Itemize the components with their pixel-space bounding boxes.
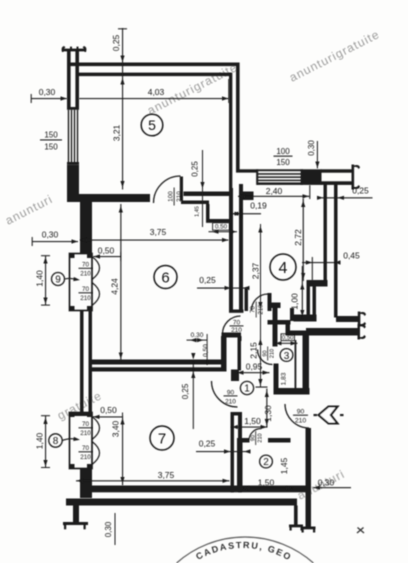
dimension 0,19 <box>232 201 267 220</box>
window sill cap lower <box>67 162 79 165</box>
door D2 arc <box>249 429 261 441</box>
entry door arc (90/210) <box>285 404 309 428</box>
wall E2 with cap (right jut) <box>306 328 360 336</box>
dimension 3,40 rot <box>111 416 125 486</box>
svg-text:4,24: 4,24 <box>110 278 120 295</box>
svg-text:3,21: 3,21 <box>112 124 122 141</box>
second wall line below door <box>181 201 209 205</box>
entry direction arrow symbol <box>319 407 338 424</box>
svg-text:1,45: 1,45 <box>279 457 289 474</box>
wall rooms 6/7 line lower <box>92 367 222 371</box>
wall cut foot A <box>289 525 303 531</box>
entry door label 90/210 <box>293 409 308 425</box>
room 2 left wall <box>237 438 243 492</box>
room 3 east wall <box>303 331 310 395</box>
small mark above stamp <box>357 528 364 534</box>
wall cut cap E1 <box>358 312 366 327</box>
svg-text:4: 4 <box>279 260 288 277</box>
svg-text:1,50: 1,50 <box>258 478 275 488</box>
svg-text:0,30: 0,30 <box>39 87 56 97</box>
top wall inner line <box>79 73 231 77</box>
dimension 1,40 room 9 <box>35 255 51 305</box>
svg-text:0,30: 0,30 <box>104 521 113 537</box>
room circle 7 <box>150 426 174 450</box>
svg-text:7: 7 <box>158 431 166 448</box>
room circle 2 <box>260 455 273 468</box>
dimension 0,25 room6 wall <box>197 275 250 290</box>
wall between rooms 5 and 6 left part <box>79 194 150 202</box>
small shaft wall segment <box>245 288 249 311</box>
dimension 0,25 door wall rot <box>191 150 205 227</box>
svg-text:0,25: 0,25 <box>181 383 190 399</box>
svg-text:2: 2 <box>263 457 269 468</box>
svg-text:0,19: 0,19 <box>250 201 267 211</box>
wall cut cap top-left <box>62 46 87 52</box>
hall east wall lower <box>274 364 279 389</box>
door D56 label 100/210 rotated <box>168 188 184 206</box>
hall west wall <box>238 341 242 371</box>
room 4 inner step wall <box>307 280 328 287</box>
svg-text:4,03: 4,03 <box>148 87 165 97</box>
niche room 8 corner stubs <box>70 413 93 469</box>
room circle 5 <box>141 114 163 136</box>
dimension 2,37 rot <box>251 224 263 387</box>
dimension 0,25 wall 6/7 rot <box>181 353 195 429</box>
dimension 0,30 NE rot <box>307 140 320 169</box>
dimension 3,75 room 6 <box>80 227 229 242</box>
wall cut cap NE <box>352 165 361 190</box>
svg-text:100: 100 <box>276 147 290 156</box>
dimension 1,30 rot <box>263 389 273 428</box>
svg-text:6: 6 <box>161 270 169 287</box>
niche 8 door arc lower <box>92 442 100 465</box>
svg-text:150: 150 <box>276 158 290 167</box>
door D7 hinge stub <box>231 370 239 382</box>
dimension 0,30 top-left <box>31 87 67 103</box>
dimension 0,30 bottom left rot <box>104 513 116 545</box>
svg-text:2,37: 2,37 <box>251 262 261 279</box>
door D6 arc <box>223 316 241 334</box>
svg-text:0,45: 0,45 <box>343 251 360 261</box>
svg-text:210: 210 <box>80 295 91 302</box>
svg-text:210: 210 <box>80 430 91 437</box>
svg-text:210: 210 <box>231 327 242 334</box>
door D6 leaf (70/210) <box>222 333 242 338</box>
dimension 3,21 left <box>112 78 125 188</box>
wall cut cap SW <box>63 522 88 529</box>
dimension 0,25 top-left <box>111 28 127 190</box>
room 2 top wall left stub <box>237 438 250 443</box>
niche 9 label lower 70/210 <box>79 286 93 302</box>
svg-text:1,83: 1,83 <box>281 372 288 385</box>
svg-text:0,25: 0,25 <box>191 161 200 177</box>
svg-text:70: 70 <box>82 262 90 269</box>
room 7 right wall (double) <box>231 412 243 493</box>
svg-text:0,95: 0,95 <box>246 362 263 372</box>
svg-text:0,25: 0,25 <box>352 186 369 196</box>
wall between rooms 5 and 6 right part <box>184 192 232 197</box>
left wall x80-92 lower (double) <box>80 469 92 499</box>
small label 0.30 near D6 <box>187 332 208 365</box>
svg-text:0,25: 0,25 <box>199 275 216 285</box>
room circle 3 <box>280 349 293 362</box>
dimension 3,75 bottom <box>76 470 230 483</box>
long wall room6/room4 line B <box>239 184 243 310</box>
dimension 1,50 vestibule <box>231 416 268 429</box>
door D7 label 90/210 <box>224 390 238 406</box>
niche 8 door arc upper <box>92 417 100 440</box>
svg-text:5: 5 <box>148 117 156 133</box>
dimension 4,03 <box>79 79 229 103</box>
top wall outer line <box>67 63 239 67</box>
svg-text:0.50: 0.50 <box>215 224 228 231</box>
niche room 9 corner stubs <box>70 254 93 311</box>
shaft stub wall <box>272 303 281 309</box>
south-west wall descender <box>73 505 79 523</box>
svg-text:210: 210 <box>258 433 264 442</box>
dimension 0,25 wall R <box>317 186 373 200</box>
room 4 bottom-left wall <box>294 315 317 322</box>
outer wall double-line toward NE cap <box>321 169 353 185</box>
svg-text:210: 210 <box>270 349 276 358</box>
svg-text:0,30: 0,30 <box>42 230 59 240</box>
svg-text:70: 70 <box>233 319 241 326</box>
east wall lower (room 2 right) <box>306 428 312 506</box>
svg-text:0,30: 0,30 <box>318 478 335 488</box>
stamp arc text CADASTRU GEO <box>153 537 333 563</box>
boxed label 0.50 shaft <box>209 223 238 234</box>
svg-text:100: 100 <box>168 191 175 202</box>
svg-text:210: 210 <box>80 454 91 461</box>
hall east wall upper <box>273 303 278 347</box>
wall left of room 5 lower <box>67 165 79 202</box>
dimension 1,50 room 2 <box>243 478 294 491</box>
dimension 0,95 <box>237 362 270 375</box>
wall connector to top window <box>236 169 258 172</box>
svg-text:70: 70 <box>82 421 90 428</box>
room 5 right wall outer line <box>236 63 240 171</box>
svg-text:70: 70 <box>82 286 90 293</box>
dimension 1,00 rot <box>290 266 305 318</box>
svg-text:0,30: 0,30 <box>307 140 316 156</box>
long wall room6/room4 line A <box>229 188 233 310</box>
door D3 leaf (70/210) <box>268 293 272 311</box>
dimension 1,40 room 8 <box>35 415 51 468</box>
wall stub right of long wall (room 4 NW) <box>243 192 254 201</box>
door D56 arc <box>154 176 181 203</box>
south wall outer line <box>66 499 297 506</box>
long wall bottom sill <box>229 310 244 313</box>
wall jog up to door D6 <box>221 336 227 372</box>
room circle 8 with leader <box>49 434 80 447</box>
svg-text:1: 1 <box>244 384 250 395</box>
room circle 6 <box>154 266 177 289</box>
svg-text:9: 9 <box>55 275 61 286</box>
svg-text:0,50: 0,50 <box>282 336 294 342</box>
door D3 label rot <box>251 302 265 318</box>
svg-text:2,40: 2,40 <box>266 186 283 196</box>
wall cut foot B <box>301 527 316 533</box>
room 4 step verticals (double) <box>307 286 317 318</box>
dimension 2,72 rot <box>293 199 305 282</box>
svg-text:1,50: 1,50 <box>244 416 261 426</box>
outer wall right of window W2 <box>302 169 322 185</box>
wall step below room 5 left <box>67 195 91 202</box>
svg-text:1,40: 1,40 <box>35 270 45 287</box>
arrow symbol side dots <box>314 414 344 416</box>
svg-text:3,75: 3,75 <box>150 227 167 237</box>
niche room 8 outline <box>70 413 93 469</box>
svg-text:0.30: 0.30 <box>191 332 204 339</box>
room 4 right wall bottom stub to cap <box>336 316 360 322</box>
room 5 right wall inner line <box>229 73 232 192</box>
shaft divider wall <box>290 308 294 321</box>
svg-text:3,40: 3,40 <box>111 420 121 437</box>
svg-text:150: 150 <box>44 131 58 140</box>
door D7 arc (90/210) <box>212 381 238 407</box>
window label 150/150 <box>40 131 62 152</box>
room 4 right wall outer line <box>334 184 338 318</box>
dimension 0,30 bottom right <box>313 478 351 490</box>
svg-text:210: 210 <box>80 271 91 278</box>
svg-text:1,45: 1,45 <box>195 206 201 217</box>
svg-text:210: 210 <box>295 418 307 425</box>
door D3b label rot <box>262 347 275 361</box>
door D56 leaf (100/210) <box>180 177 183 201</box>
svg-text:210: 210 <box>225 399 236 406</box>
room circle 4 <box>270 254 296 280</box>
svg-text:8: 8 <box>53 436 59 447</box>
svg-text:70: 70 <box>82 445 90 452</box>
dimension 0,50 room 8 <box>93 405 124 422</box>
niche room 9 outline <box>70 254 93 311</box>
small label 0,50 rot near D6 <box>202 344 209 357</box>
wall rooms 6/7 line upper <box>92 360 222 365</box>
shaft jog vertical <box>286 324 291 331</box>
boxed label 0,50 near room 3 <box>275 334 298 346</box>
svg-text:3: 3 <box>284 351 290 362</box>
dimension 2,15 rot <box>249 339 268 388</box>
dimension 4,24 <box>110 204 123 361</box>
svg-text:1,00: 1,00 <box>290 293 300 310</box>
window sill cap upper <box>67 107 79 110</box>
wall cut cap E2 <box>358 324 366 340</box>
door D3b arc (hall to room 3) <box>258 350 273 365</box>
niche 8 label lower 70/210 <box>79 445 93 461</box>
svg-text:2,15: 2,15 <box>249 342 259 359</box>
door D6 label 70/210 <box>230 319 244 334</box>
svg-text:3,75: 3,75 <box>158 470 175 480</box>
room circle 1 <box>240 381 253 394</box>
svg-text:90: 90 <box>297 409 305 416</box>
window W2 top (100/150) <box>256 169 303 185</box>
svg-text:1,40: 1,40 <box>35 432 45 449</box>
south cut line right (double wall cut) <box>294 506 298 526</box>
window W1 in left wall (150/150) <box>68 110 78 163</box>
dimension 0,50 room 9 <box>93 246 121 262</box>
dimension 1,45 rot <box>279 457 289 474</box>
svg-text:0,50: 0,50 <box>100 405 117 415</box>
door D3 arc <box>252 294 269 311</box>
hall west wall corner <box>238 336 242 341</box>
hall south wall <box>274 388 310 395</box>
svg-text:210: 210 <box>259 304 265 315</box>
room 4 right wall inner line <box>324 184 327 281</box>
shaft niche bottom wall <box>206 219 232 223</box>
left wall x80-92 middle (double) <box>80 311 92 413</box>
wall left of room 5 upper (double line) <box>67 50 79 109</box>
left wall x80-92 upper (double) <box>80 202 92 254</box>
niche 8 label upper 70/210 <box>79 421 93 437</box>
svg-text:0,25: 0,25 <box>111 34 121 51</box>
room circle 9 with leader <box>52 273 81 286</box>
svg-text:0,25: 0,25 <box>199 439 216 449</box>
room 2 top wall right stub <box>268 438 291 443</box>
east wall bottom descender <box>306 492 312 527</box>
shaft lower wall <box>286 331 304 336</box>
dimension 0,45 <box>302 251 360 281</box>
svg-text:2,72: 2,72 <box>293 229 303 246</box>
svg-text:150: 150 <box>44 143 58 152</box>
shaft bottom wall <box>268 320 291 325</box>
svg-text:0,50: 0,50 <box>98 246 115 256</box>
window label 100/150 <box>274 147 293 167</box>
south wall inner line <box>92 486 306 493</box>
dimension 1,83 rot <box>281 372 288 385</box>
svg-text:0,50: 0,50 <box>202 344 209 357</box>
dimension 0,25 room 7 wall <box>196 439 251 454</box>
svg-text:210: 210 <box>176 191 183 202</box>
dimension 2,40 <box>238 185 310 199</box>
niche 9 door arc lower <box>92 283 100 306</box>
door D2 label rot <box>250 431 263 445</box>
step to niche room 8 <box>69 412 93 416</box>
dimension 0,30 room 9 top <box>32 230 78 247</box>
niche 9 label upper 70/210 <box>79 262 93 278</box>
room 3 east wall inner line <box>295 340 297 394</box>
shaft niche left wall <box>206 204 210 221</box>
niche 9 door arc upper <box>92 257 100 280</box>
